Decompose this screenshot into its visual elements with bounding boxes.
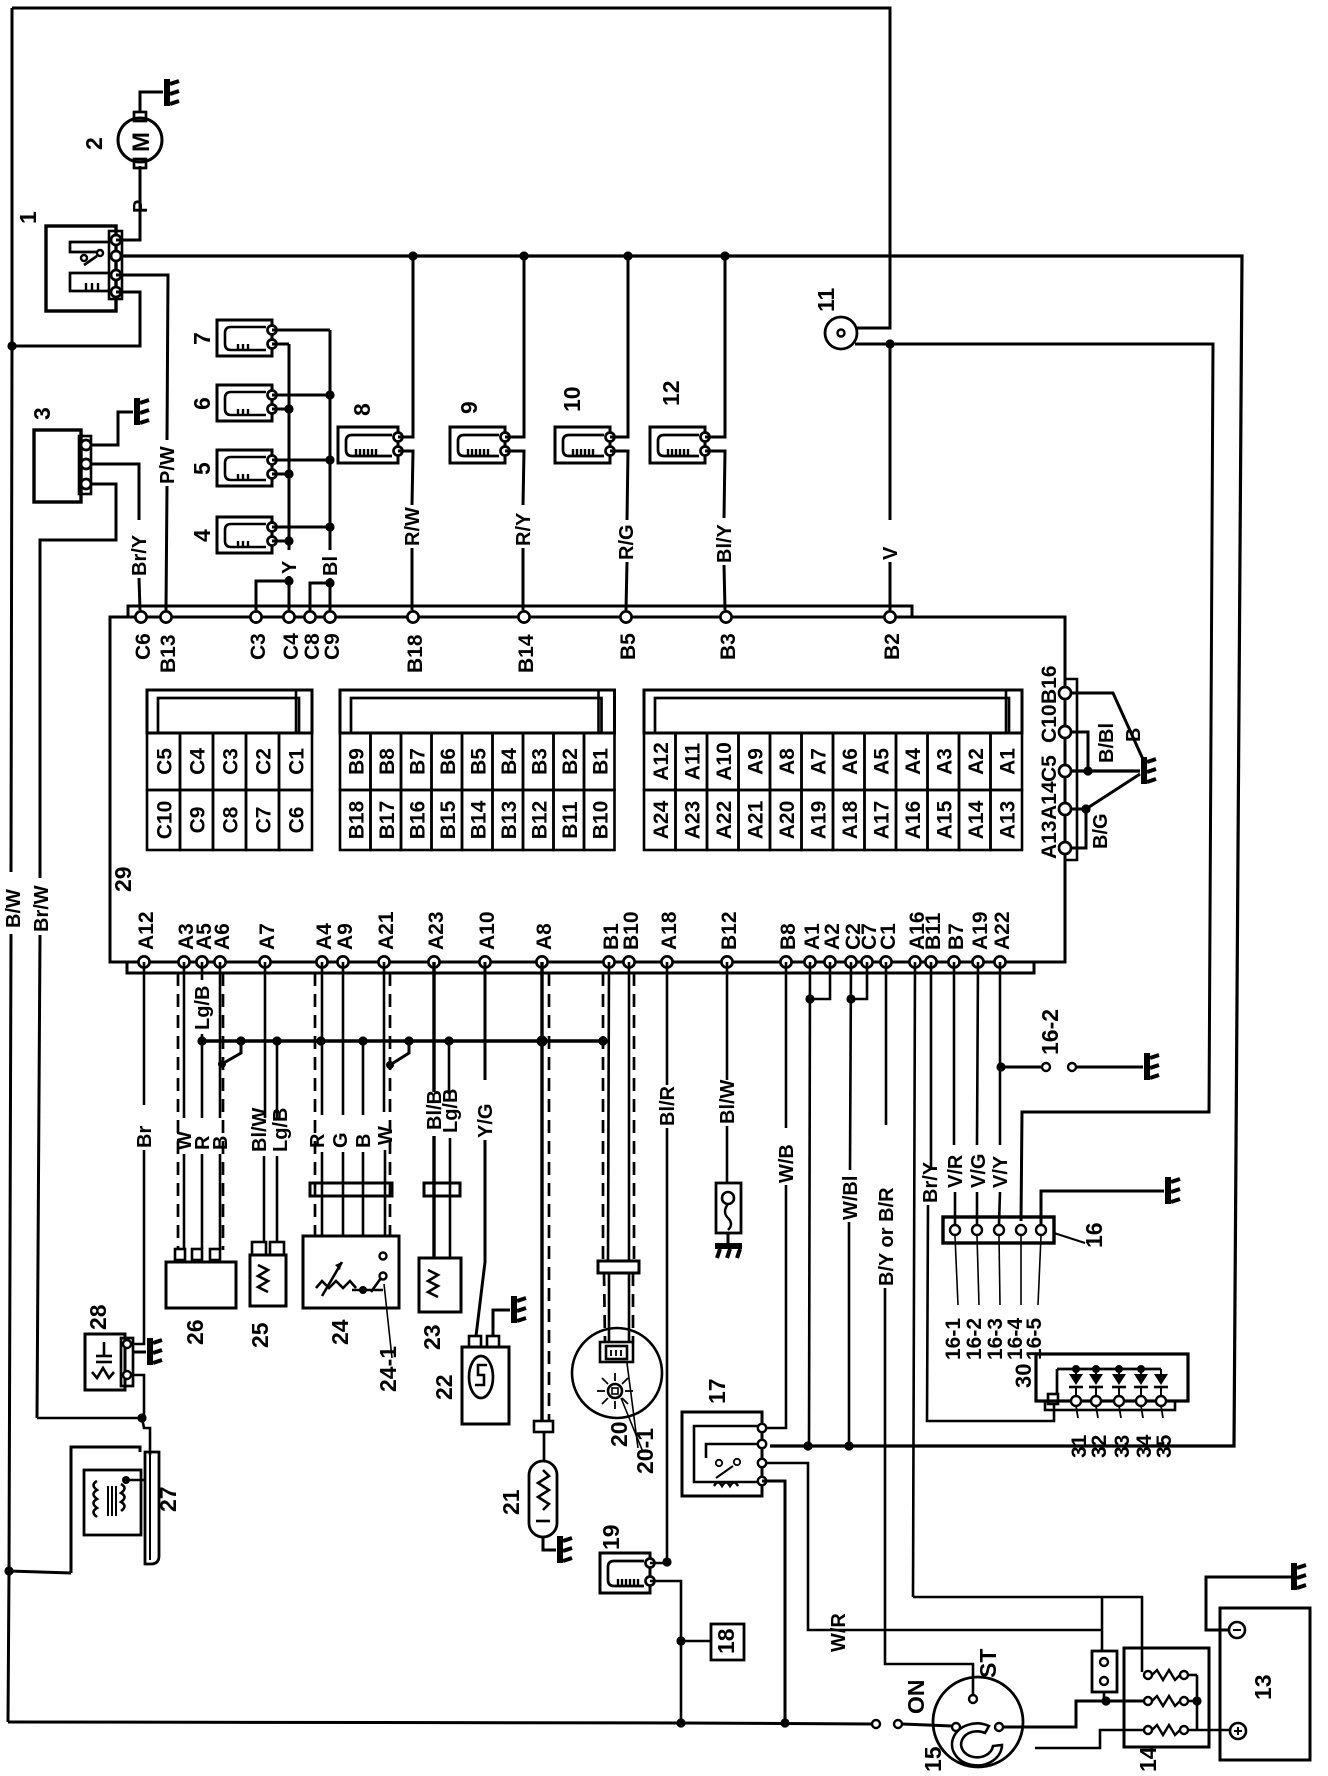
wire comp17 pin4 to bottom border [762,1481,785,1723]
svg-text:A4: A4 [313,923,336,950]
svg-text:19: 19 [598,1524,624,1550]
svg-text:20: 20 [606,1421,632,1447]
svg-text:Bl/Y: Bl/Y [714,523,736,563]
svg-text:17: 17 [704,1378,730,1404]
svg-text:A1: A1 [996,748,1019,775]
svg-text:W: W [375,1126,397,1145]
svg-text:B16: B16 [1038,665,1061,704]
svg-text:A23: A23 [425,911,448,950]
svg-text:21: 21 [498,1489,524,1515]
svg-text:29: 29 [110,866,136,892]
svg-text:23: 23 [419,1324,445,1350]
svg-text:33: 33 [1111,1435,1134,1458]
wire A1 A2 join [810,962,830,999]
component 2 motor [118,118,162,162]
svg-text:A10: A10 [713,742,736,781]
wire comp10 to bus and B5 R/G [610,256,628,437]
svg-text:B1: B1 [589,748,612,775]
wire injector 7 pins [272,329,330,332]
svg-text:A10: A10 [476,911,499,950]
svg-text:B6: B6 [437,748,460,775]
wire G from A9 [342,962,345,1115]
wire injector 6 pins [272,394,330,397]
svg-text:C3: C3 [247,633,270,660]
svg-text:A22: A22 [991,911,1014,950]
wire V to B2 [889,344,892,520]
svg-text:12: 12 [658,380,684,406]
svg-text:A13: A13 [996,801,1019,840]
component 11 ignition coil [825,317,857,349]
svg-text:B14: B14 [467,800,490,839]
wire Lg/B R from A5 [201,962,204,980]
shield dashes group2 [314,973,317,1236]
svg-text:C1: C1 [286,748,309,775]
svg-text:B/W: B/W [3,889,25,928]
svg-text:B12: B12 [528,801,551,840]
svg-text:Bl/W: Bl/W [249,1107,271,1152]
ECU connector table B [340,690,615,733]
component 26 [175,1249,185,1260]
wire Br/Y to C6 [91,464,139,520]
svg-text:22: 22 [431,1374,457,1400]
svg-text:B7: B7 [945,923,968,950]
svg-text:C4: C4 [280,633,303,660]
svg-text:Lg/B: Lg/B [270,1108,292,1152]
svg-text:Br: Br [134,1126,156,1148]
svg-text:V/Y: V/Y [990,1155,1012,1188]
svg-text:Y: Y [279,560,301,574]
component 17 main relay [682,1412,762,1496]
wire battery ground [1206,1577,1292,1630]
svg-text:26: 26 [182,1319,208,1345]
wire comp28 ground [133,1351,146,1354]
svg-text:A5: A5 [870,748,893,775]
svg-text:A4: A4 [902,748,925,775]
svg-text:8: 8 [349,403,375,416]
svg-text:Y/G: Y/G [475,1104,497,1138]
svg-text:B: B [1123,728,1145,742]
label 24-1 [384,1284,392,1358]
component 8 sensor [338,427,398,463]
svg-text:B12: B12 [718,911,741,950]
svg-text:11: 11 [813,287,839,312]
component 22 [469,1336,481,1347]
component 24 throttle sensor [303,1236,399,1308]
svg-text:A3: A3 [933,748,956,775]
svg-text:B13: B13 [498,801,521,840]
svg-text:A21: A21 [375,911,398,950]
wire A16 to ignition feed [913,962,915,1597]
svg-text:B18: B18 [404,634,427,673]
ground comp28 [147,1338,153,1365]
svg-text:P: P [130,200,152,213]
svg-text:A7: A7 [256,923,279,950]
wire comp12 to bus and B3 Bl/Y [705,256,725,437]
injector 5 [217,450,272,486]
svg-text:B: B [353,1134,375,1148]
svg-text:Bl/W: Bl/W [717,1079,739,1124]
svg-text:B3: B3 [528,748,551,775]
svg-text:18: 18 [713,1628,739,1654]
svg-text:V: V [880,546,902,560]
ECU connector table A [644,690,1022,733]
svg-text:R/G: R/G [616,524,638,560]
svg-text:24-1: 24-1 [375,1346,401,1392]
svg-text:A8: A8 [533,923,556,950]
svg-text:24: 24 [327,1319,353,1345]
wire A8 thick to comp21 [540,962,543,1421]
svg-text:C6: C6 [286,807,309,834]
component 23 sensor resistor [419,1258,461,1312]
svg-text:A14: A14 [1038,781,1061,820]
svg-text:A23: A23 [681,801,704,840]
wire B/Y or B/R from C1 to ST [885,962,888,1125]
wires comp19 [650,1562,667,1565]
wire injector 4 pins [272,526,330,529]
svg-text:3: 3 [29,407,55,420]
component 20 distributor [572,1328,662,1418]
svg-text:A8: A8 [776,748,799,775]
svg-text:A6: A6 [839,748,862,775]
wire comp3 ground [91,412,133,445]
wire Bl/W from B12 [726,962,729,1080]
wire Br/W down left side [40,484,116,878]
svg-text:C1: C1 [877,923,900,950]
svg-text:B3: B3 [717,633,740,660]
component 10 sensor [555,427,610,463]
svg-text:B10: B10 [620,911,643,950]
wire V/R from B7 [953,962,956,1145]
svg-text:A6: A6 [211,923,234,950]
svg-text:C2: C2 [253,748,276,775]
svg-text:7: 7 [189,332,215,345]
svg-text:Br/Y: Br/Y [920,1161,942,1203]
svg-text:16-1: 16-1 [942,1318,965,1360]
svg-text:B8: B8 [777,923,800,950]
component B12 sensor switch [716,1183,741,1233]
connector 16 [943,1217,1054,1243]
ground 16-2 [1144,1053,1150,1080]
wire bottom border [8,1722,872,1724]
svg-text:C5: C5 [1038,755,1061,782]
connector 2pin box [1092,1651,1117,1692]
ECU right pins [1059,687,1071,699]
svg-text:B4: B4 [498,748,521,775]
svg-text:V/R: V/R [945,1154,967,1188]
component 27 igniter unit [71,1447,140,1573]
wire motor ground [140,92,163,112]
svg-text:15: 15 [920,1746,946,1772]
svg-text:1: 1 [15,211,41,224]
svg-text:Lg/B: Lg/B [440,1089,462,1133]
component 3 resistor block [34,430,81,502]
svg-text:A20: A20 [776,801,799,840]
svg-text:A9: A9 [744,748,767,775]
svg-text:A22: A22 [713,801,736,840]
wire W from A21 [383,962,386,1112]
wire B from shield bus [362,1041,365,1115]
svg-text:Bl/R: Bl/R [657,1085,679,1126]
wire injector 5 pins [272,459,330,462]
svg-text:13: 13 [1250,1674,1276,1700]
svg-text:A16: A16 [902,801,925,840]
svg-text:28: 28 [85,1304,111,1330]
svg-text:W/Bl: W/Bl [840,1176,862,1220]
wire left border to comp27 [9,1571,71,1573]
wire P/W to B13 [116,275,168,440]
svg-text:B16: B16 [406,801,429,840]
svg-text:A18: A18 [839,800,862,839]
svg-text:9: 9 [456,401,482,414]
svg-text:C3: C3 [220,748,243,775]
component 9 sensor [450,427,505,463]
ground B12 sensor [715,1243,742,1249]
svg-text:27: 27 [155,1486,181,1512]
svg-text:B15: B15 [437,800,460,839]
svg-text:B/G: B/G [1090,813,1112,849]
ground comp21 [557,1536,563,1563]
ground battery [1291,1563,1297,1590]
wire comp28 to junction [133,1375,144,1418]
svg-text:C8: C8 [220,806,243,833]
ECU top pins [135,611,146,622]
svg-text:C5: C5 [154,748,177,775]
svg-text:P/W: P/W [157,446,179,484]
svg-text:14: 14 [1135,1746,1161,1772]
svg-text:16-2: 16-2 [1037,1009,1063,1055]
svg-text:B10: B10 [589,801,612,840]
svg-text:16-2: 16-2 [963,1318,986,1360]
svg-text:B17: B17 [376,801,399,840]
svg-text:A11: A11 [681,743,704,781]
svg-text:B11: B11 [559,801,582,839]
svg-text:C10: C10 [1038,704,1061,743]
conn16 leader labels [955,1236,958,1305]
wire conn16 pin5 ground [1041,1191,1164,1225]
svg-text:A7: A7 [807,748,830,775]
wire B16 to ground B [1071,693,1146,766]
component 25 [252,1242,266,1255]
svg-text:A15: A15 [933,800,956,839]
svg-text:B2: B2 [559,748,582,775]
svg-text:V/G: V/G [968,1154,990,1188]
svg-text:B/Bl: B/Bl [1096,723,1118,763]
ECU bottom pins [138,956,149,967]
svg-text:B2: B2 [881,633,904,660]
svg-text:Br/Y: Br/Y [129,534,151,576]
wire left border B/W [11,8,12,872]
svg-text:C9: C9 [187,807,210,834]
wire top border [12,8,890,328]
wire main supply bus [122,256,1242,1446]
ECU top connector bar [128,606,912,617]
svg-text:C4: C4 [187,748,210,775]
svg-text:A13: A13 [1038,820,1061,859]
wire P motor feed [116,166,140,240]
wire A14 A13 bracket B/G [1071,809,1086,848]
wire B from A6 [219,962,222,1118]
inline connector band comp24 [310,1183,392,1196]
svg-text:W/R: W/R [828,1613,850,1652]
wire R from A4 [321,962,324,1115]
shield dashes group1 [177,973,180,1250]
wire comp22 ground [493,1310,510,1336]
svg-text:R/Y: R/Y [513,512,535,546]
wire Y bus to C3 C4 [288,344,291,550]
svg-text:M: M [128,132,155,152]
ground ECU right [1141,757,1147,784]
wire Br from A12 to comp28 [143,962,146,1105]
ground comp22 [511,1296,517,1323]
inline connector band comp23 [424,1183,460,1196]
svg-text:A21: A21 [744,800,767,839]
svg-text:A19: A19 [807,801,830,840]
wire Br/Y from B11 to comp30 [930,962,933,1170]
svg-text:B18: B18 [345,800,368,839]
ECU bottom connector bar [127,962,1034,973]
svg-text:W/B: W/B [776,1144,798,1183]
wire V/G from A19 [977,962,978,1145]
svg-text:A9: A9 [334,923,357,950]
ground motor [164,79,170,106]
svg-text:4: 4 [189,529,215,542]
ECU right connector bar [1065,679,1077,860]
svg-text:C7: C7 [253,807,276,834]
ECU box 29 [110,617,1065,962]
svg-text:A17: A17 [870,801,893,840]
svg-text:ON: ON [903,1680,929,1715]
injector 4 [217,517,272,553]
svg-text:Bl: Bl [320,556,342,576]
wire Lg/B from shield bus to comp23 [448,1041,451,1094]
wire C10 C5 bracket B/Bl [1071,732,1088,771]
wire V/Y from A22 [999,962,1002,1145]
wire switch to fuses [1003,1701,1144,1727]
shield bus [202,1039,603,1043]
fuse box wires [1188,1674,1197,1677]
wire Lg/B shieldbus to comp25 [276,1041,279,1120]
svg-text:B: B [210,1136,232,1150]
wire Bl/B from A23 [432,962,435,1092]
wire W from A3 [183,962,186,1118]
svg-text:A2: A2 [965,748,988,775]
svg-text:G: G [330,1132,352,1148]
wire W/B from B8 to comp17 [785,962,788,1128]
svg-text:A14: A14 [965,800,988,839]
svg-text:A24: A24 [650,800,673,839]
injector 6 [217,385,272,421]
svg-text:B/Y or B/R: B/Y or B/R [876,1187,898,1286]
component 28 condenser [85,1334,125,1390]
wire Y/G from A10 to comp22 [484,962,487,1080]
svg-text:A12: A12 [650,742,673,781]
svg-text:R: R [307,1133,329,1148]
injector 7 [217,320,272,356]
svg-text:R/W: R/W [402,507,424,546]
wire Bl bus to C8 C9 [329,330,332,550]
wire comp8 to bus and B18 R/W [398,256,413,437]
svg-text:10: 10 [559,386,585,412]
svg-text:B11: B11 [922,912,945,950]
svg-text:B13: B13 [157,634,180,673]
wire coil secondary line [855,344,1213,1221]
ignition switch 15 [933,1677,1023,1767]
component 12 sensor [650,427,705,463]
component 21 resistor [529,1461,557,1537]
ground conn16 [1165,1177,1171,1204]
switch 16-2 branch [1001,1066,1042,1069]
svg-text:30: 30 [1011,1364,1036,1388]
wire comp1 pin4 to left border [12,292,140,346]
ground comp3 [134,398,140,425]
svg-text:5: 5 [189,462,215,475]
battery 13 [1220,1608,1310,1760]
component 19 [600,1553,650,1593]
component 30 diode pack [1036,1354,1188,1401]
component 18 [681,1640,711,1643]
svg-text:B9: B9 [345,748,368,775]
wire C2 C7 join W/Bl [851,962,867,999]
wire junction to comp27 [142,1418,150,1455]
svg-text:C10: C10 [154,801,177,840]
svg-text:16: 16 [1081,1222,1107,1248]
svg-text:Br/W: Br/W [31,885,53,932]
svg-text:B5: B5 [617,633,640,660]
svg-text:C6: C6 [132,633,155,660]
wires B1 B10 to distributor [602,973,605,1261]
wire W/R [762,1463,1102,1630]
svg-text:ST: ST [975,1649,1001,1678]
inline connector on ON wire [872,1720,880,1728]
svg-text:B7: B7 [406,748,429,775]
svg-text:32: 32 [1088,1435,1111,1458]
component 1 main relay [46,226,116,311]
svg-text:25: 25 [247,1322,273,1348]
svg-text:C9: C9 [321,633,344,660]
ECU connector table C [147,690,312,733]
wire Bl/W from A7 to comp25 [264,962,267,1118]
wire comp21 ground [543,1537,556,1550]
svg-text:A18: A18 [658,911,681,950]
svg-text:A12: A12 [135,911,158,950]
wire comp9 to bus and B14 R/Y [505,256,524,437]
svg-text:6: 6 [189,397,215,410]
svg-text:B8: B8 [376,748,399,775]
svg-text:2: 2 [81,137,107,150]
fuse box 14 [1124,1648,1209,1747]
svg-text:35: 35 [1153,1434,1176,1458]
wire Bl/R from A18 [666,962,669,1085]
svg-text:A2: A2 [821,923,844,950]
svg-text:A19: A19 [969,911,992,950]
svg-text:Lg/B: Lg/B [192,986,214,1030]
svg-text:B14: B14 [515,634,538,673]
svg-text:B5: B5 [467,748,490,775]
